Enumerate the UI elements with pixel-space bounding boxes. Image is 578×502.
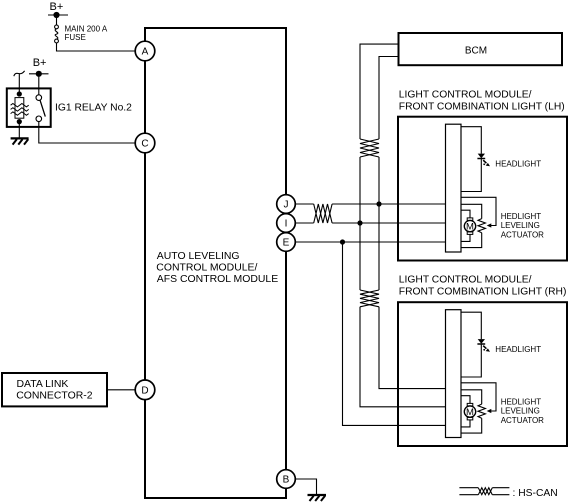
LH headlight (diode): [477, 154, 485, 159]
svg-text:IG1 RELAY No.2: IG1 RELAY No.2: [55, 102, 132, 113]
wire E to LH module: [295, 241, 446, 243]
wire: [107, 389, 135, 391]
svg-text:D: D: [141, 386, 148, 397]
node C: [135, 133, 155, 153]
label LIGHT CONTROL MODULE (RH): [399, 275, 567, 298]
svg-text:I: I: [285, 219, 288, 230]
svg-text:LIGHT CONTROL MODULE/: LIGHT CONTROL MODULE/: [399, 275, 532, 286]
RH position resistor: [461, 390, 485, 433]
node I: [277, 214, 296, 233]
LH wiper wire with arrow: [461, 197, 496, 227]
label LIGHT CONTROL MODULE (LH): [399, 90, 565, 113]
wire J: [295, 203, 313, 205]
DATA LINK CONNECTOR-2 box: [2, 373, 107, 406]
svg-text:HEADLIGHT: HEADLIGHT: [495, 159, 541, 168]
node B+ (relay branch): [29, 71, 49, 77]
node B: [277, 470, 296, 489]
svg-text:CONNECTOR-2: CONNECTOR-2: [16, 390, 93, 401]
relay K1 IG1 RELAY No.2 box: [7, 88, 51, 127]
svg-text:M: M: [466, 407, 474, 418]
svg-text:B+: B+: [50, 1, 64, 13]
wire continuation squiggle: [14, 71, 25, 94]
svg-text:FRONT COMBINATION LIGHT (LH): FRONT COMBINATION LIGHT (LH): [399, 101, 565, 112]
wire: [57, 43, 136, 51]
wire E vertical to RH: [343, 242, 447, 425]
svg-text:: HS-CAN: : HS-CAN: [513, 488, 558, 499]
svg-text:C: C: [141, 139, 148, 150]
svg-text:J: J: [284, 200, 289, 211]
junction I / CAN-L: [357, 220, 362, 225]
twisted pair (J/I): [314, 204, 332, 223]
LH headlight wire: [461, 127, 481, 192]
wire: [56, 15, 58, 25]
label AUTO LEVELING CONTROL MODULE: [156, 251, 278, 285]
RH connector bar: [446, 310, 462, 438]
ground (module B): [308, 495, 327, 501]
svg-text:HEDLIGHT: HEDLIGHT: [501, 397, 542, 406]
svg-text:FUSE: FUSE: [65, 33, 86, 42]
node D: [135, 380, 155, 400]
svg-text:BCM: BCM: [465, 46, 487, 57]
svg-text:HEADLIGHT: HEADLIGHT: [495, 345, 541, 354]
node E: [277, 233, 296, 252]
wire CAN-H vertical (BCM to RH): [379, 57, 446, 389]
label MAIN 200 A FUSE: [65, 25, 108, 42]
junction E: [340, 239, 345, 244]
label HEDLIGHT LEVELING ACTUATOR (RH): [501, 397, 544, 425]
svg-text:FRONT COMBINATION LIGHT (RH): FRONT COMBINATION LIGHT (RH): [399, 286, 567, 297]
LH module box: [398, 117, 567, 261]
label DATA LINK CONNECTOR-2: [16, 379, 93, 401]
RH light arrow: [483, 346, 490, 352]
wire I: [295, 222, 313, 224]
fuse MAIN 200 A: [55, 25, 59, 43]
svg-text:LIGHT CONTROL MODULE/: LIGHT CONTROL MODULE/: [399, 90, 532, 101]
svg-text:B: B: [283, 475, 290, 486]
legend twisted pair symbol: [459, 488, 509, 495]
svg-text:B+: B+: [33, 57, 47, 69]
twisted pair vertical (lower): [360, 290, 379, 307]
RH headlight (diode): [477, 339, 485, 344]
svg-text:CONTROL MODULE/: CONTROL MODULE/: [156, 263, 257, 274]
LH light arrow: [483, 160, 490, 166]
label HEDLIGHT LEVELING ACTUATOR (LH): [501, 212, 544, 240]
svg-text:LEVELING: LEVELING: [501, 407, 540, 416]
RH headlight wire: [461, 312, 481, 377]
RH module box: [398, 302, 567, 446]
LH connector bar: [446, 124, 462, 252]
wire: [39, 122, 136, 143]
svg-text:HEDLIGHT: HEDLIGHT: [501, 212, 542, 221]
LH position resistor: [461, 204, 485, 247]
relay coil: [11, 91, 29, 124]
wire J to LH module: [332, 203, 446, 205]
twisted pair vertical (upper): [360, 139, 379, 157]
wire I to LH module: [332, 222, 446, 224]
svg-text:ACTUATOR: ACTUATOR: [501, 416, 544, 425]
wire: [18, 124, 20, 138]
ground (relay): [11, 138, 29, 144]
svg-text:LEVELING: LEVELING: [501, 221, 540, 230]
svg-text:DATA LINK: DATA LINK: [17, 379, 69, 390]
RH wiper wire with arrow: [461, 383, 496, 413]
wire B to ground: [295, 479, 316, 495]
RH leveling motor: [461, 396, 476, 427]
svg-text:ACTUATOR: ACTUATOR: [501, 230, 544, 239]
BCM box: [399, 33, 563, 65]
svg-text:M: M: [466, 222, 474, 233]
module ALM/AFS box: [145, 28, 286, 498]
junction J / CAN-H: [376, 201, 381, 206]
relay switch: [36, 77, 45, 122]
node B+ (fuse branch): [48, 12, 68, 18]
node A: [135, 41, 155, 61]
svg-text:A: A: [142, 47, 149, 58]
LH leveling motor: [461, 210, 476, 241]
svg-text:AFS CONTROL MODULE: AFS CONTROL MODULE: [157, 274, 278, 285]
svg-text:AUTO LEVELING: AUTO LEVELING: [157, 251, 240, 262]
wire CAN-L vertical (BCM to RH): [360, 44, 446, 407]
svg-text:E: E: [283, 238, 290, 249]
node J: [277, 195, 296, 214]
